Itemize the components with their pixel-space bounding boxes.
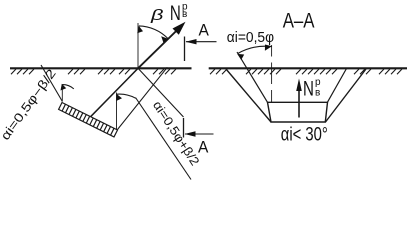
section mark A top (184, 37, 186, 62)
beta arc arrowhead right (161, 36, 168, 42)
svg-text:р: р (315, 77, 321, 88)
right arc arrowhead (116, 94, 122, 101)
left arc arrowhead (61, 84, 67, 91)
svg-text:αi=0,5φ: αi=0,5φ (227, 30, 274, 47)
force arrow N above ground (138, 26, 181, 68)
svg-text:в: в (315, 87, 320, 98)
alpha arc right figure (238, 46, 272, 53)
svg-text:β: β (150, 6, 164, 23)
svg-text:N: N (303, 76, 314, 100)
beta arc arrowhead left (137, 26, 143, 33)
right wedge line A (138, 68, 184, 117)
trench outer left slope (226, 69, 271, 122)
N arrow right figure (298, 90, 300, 118)
beta arc (139, 26, 169, 39)
anchor plate (hatched, inclined) (59, 103, 118, 137)
trench inner left slope (extends above ground) (237, 52, 268, 102)
right wedge line B (136, 98, 192, 180)
wedge line from plate corner to ground (118, 67, 168, 129)
section mark A bottom (183, 118, 185, 138)
ground hatching left (11, 69, 176, 74)
svg-text:N: N (170, 0, 181, 24)
trench inner right slope (327, 69, 346, 103)
left angle arc (63, 85, 74, 89)
ground hatching right (210, 69, 402, 74)
trench outer right slope (326, 69, 367, 122)
arrowhead N (173, 22, 186, 35)
vertical dashed reference right (271, 45, 273, 102)
alpha arc arrowhead right (265, 45, 272, 51)
right angle arc (117, 94, 136, 98)
left vertical reference (61, 84, 63, 102)
svg-text:в: в (182, 9, 187, 20)
svg-text:αi< 30°: αi< 30° (281, 123, 328, 146)
ground line right figure (209, 67, 407, 69)
plate cross-section rectangle (268, 102, 328, 122)
left wedge line (41, 65, 62, 102)
force line (anchor rod) below ground (91, 68, 138, 116)
beta vertical reference (137, 23, 139, 68)
svg-text:A: A (199, 21, 210, 40)
svg-text:A–A: A–A (283, 8, 315, 33)
right vertical reference (116, 93, 118, 130)
alpha arc arrowhead left (237, 54, 244, 60)
svg-text:A: A (198, 138, 209, 157)
ground line left figure (10, 67, 192, 69)
